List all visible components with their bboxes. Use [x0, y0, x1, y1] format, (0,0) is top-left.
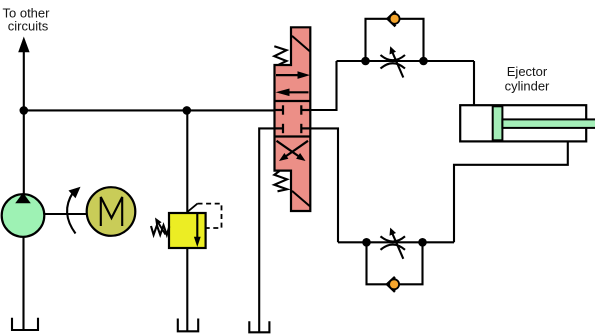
check valve CV2 [387, 277, 399, 292]
wire: valve tank return [259, 128, 275, 331]
node: bottom loop left [362, 238, 371, 247]
svg-text:Ejector: Ejector [507, 64, 548, 79]
node: junction at relief riser [183, 106, 192, 115]
valve position 1 arrow left [276, 89, 309, 97]
cylinder piston [493, 106, 503, 140]
flow control FC1 [381, 46, 406, 77]
wire: relief valve riser [186, 110, 188, 213]
rotation arrow [67, 187, 80, 234]
valve bottom solenoid slash [292, 191, 310, 206]
directional valve V1 body [275, 27, 311, 211]
valve center blocked port top-right [301, 105, 310, 114]
svg-text:circuits: circuits [8, 19, 49, 34]
valve top spring [274, 46, 286, 65]
wire: relief valve to tank [186, 248, 188, 331]
wire: bottom meter line [338, 241, 454, 243]
valve position 1 arrow right [276, 71, 310, 79]
valve center blocked port top-left [275, 105, 284, 114]
valve center blocked port bottom-right [301, 124, 310, 133]
pump P1 [2, 193, 45, 237]
node: bottom loop right [418, 238, 427, 247]
wire: top meter line [337, 60, 475, 62]
cylinder rod [502, 119, 595, 128]
relief valve pilot line [188, 204, 222, 228]
node: top loop left [361, 57, 370, 66]
wire: riser to other circuits [23, 50, 25, 194]
tank below pump [12, 318, 38, 330]
wire: main supply line [24, 109, 276, 111]
wire: top check bypass loop [366, 19, 424, 61]
valve top solenoid slash [292, 36, 310, 52]
motor M1 [87, 187, 136, 236]
relief valve adjust arrow [155, 218, 166, 235]
valve section divider 1 [275, 100, 311, 102]
valve position 3 cross arrow B [279, 141, 308, 161]
wire: bottom line to cylinder rod end [454, 142, 568, 243]
node: top loop right [419, 57, 428, 66]
wire: pump-motor shaft [44, 213, 87, 215]
valve section divider 2 [275, 135, 311, 137]
label: To other circuits [3, 6, 51, 34]
arrow to other circuits [18, 37, 29, 53]
check valve CV1 [388, 11, 400, 26]
wire: valve A port to top line [310, 61, 336, 110]
flow control FC2 [381, 228, 406, 259]
label: Ejector cylinder [505, 64, 550, 94]
valve bottom spring [274, 171, 287, 191]
valve center blocked port bottom-left [275, 124, 284, 133]
wire: pump to tank [22, 237, 24, 330]
svg-text:cylinder: cylinder [505, 79, 550, 94]
node: junction at pump riser [20, 106, 29, 115]
wire: top line to cylinder cap end [473, 61, 475, 106]
tank below valve [249, 321, 269, 332]
relief valve spring [151, 225, 169, 235]
relief valve RV1 [169, 213, 206, 248]
wire: bottom check bypass loop [367, 242, 423, 284]
valve position 3 cross arrow A [277, 141, 306, 161]
cylinder body [460, 105, 586, 141]
wire: valve B port to bottom line [310, 128, 338, 242]
tank below relief valve [178, 319, 198, 332]
